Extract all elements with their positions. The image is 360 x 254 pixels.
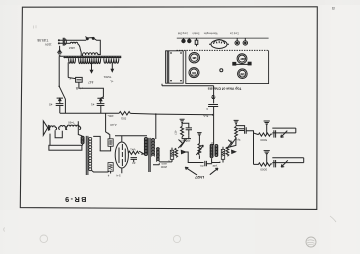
coupling capacitor C9 under V1 <box>131 158 138 162</box>
B+ wire from fuse to filter <box>79 82 104 98</box>
panel binding post 1 <box>235 38 239 45</box>
bypass resistor R8 <box>235 126 238 139</box>
wire network to jack feeds <box>246 131 258 165</box>
detector grid ground G4 <box>180 119 185 126</box>
svg-text:485: 485 <box>192 56 197 59</box>
T1 secondary winding bumps group 3 <box>104 58 119 63</box>
paper smudges <box>4 25 336 231</box>
power transformer T1 core <box>63 56 121 57</box>
svg-text:400+: 400+ <box>107 114 114 118</box>
svg-text:201: 201 <box>191 71 196 74</box>
chassis mounting hole <box>220 69 223 72</box>
ground symbol at line input <box>57 46 62 56</box>
grid squiggle resistor stage B <box>226 147 229 156</box>
wire bus junction down to T4 <box>212 115 214 145</box>
wire plug to line switch <box>64 39 86 41</box>
panel knob 2 <box>188 38 191 43</box>
filter capacitor C1 with ground arrow <box>97 98 105 113</box>
speaker connection wires <box>55 130 62 137</box>
jack J2 shunt resistor R10 <box>254 163 273 166</box>
T1 winding tap leads <box>65 56 121 58</box>
bus continues to junctions <box>130 113 212 114</box>
T1 filament tap arrow group2 <box>90 62 92 72</box>
punch hole left <box>40 235 48 243</box>
svg-text:BR-9: BR-9 <box>64 195 87 204</box>
punch hole middle <box>173 235 180 242</box>
interstage transformer T3 core <box>149 138 150 172</box>
grid leak resistor R6 <box>181 126 184 136</box>
svg-text:+L: +L <box>110 79 114 83</box>
fuse element AMZ in line <box>64 42 81 56</box>
phone jack J2 ground G8 <box>264 151 270 165</box>
svg-text:3у+: 3у+ <box>236 138 241 142</box>
battery box B1 <box>49 145 82 150</box>
T1 secondary winding bumps group 2 <box>79 58 101 63</box>
jack J2 blocking capacitor C8 <box>274 160 276 167</box>
coupling capacitor C5 <box>205 161 212 166</box>
svg-text:юоо​: юоо​ <box>161 162 167 166</box>
battery compartment box <box>166 51 184 83</box>
T3 primary bumps <box>144 137 147 155</box>
resistor R1 in bus <box>119 112 130 115</box>
cathode resistor box R4 <box>170 148 173 162</box>
svg-text:5000: 5000 <box>260 138 267 142</box>
label TM01 4L under T1 right winding <box>103 75 114 83</box>
bypass capacitor C3 at ground <box>208 105 218 115</box>
B+ bus wire with series resistor <box>60 112 119 114</box>
svg-text:110V: 110V <box>45 42 52 46</box>
svg-text:уdd: уdd <box>212 164 217 168</box>
tube socket 3 with mounting lugs <box>233 54 251 65</box>
jack J1 tip spring arrow <box>281 131 288 138</box>
wire switch to ballast coil <box>94 39 100 55</box>
volume potentiometer R5 <box>196 144 203 159</box>
bias resistor box R3 <box>108 163 113 174</box>
svg-text:Cord Lts: Cord Lts <box>229 32 239 35</box>
svg-text:#1: #1 <box>91 102 95 106</box>
svg-text:LMT: LMT <box>240 57 246 60</box>
svg-text:A,AC: A,AC <box>110 123 117 127</box>
cathode resistor box R7 <box>221 147 224 163</box>
T3 secondary bottom lead to stage A <box>153 162 172 165</box>
tube socket 4 <box>238 69 248 79</box>
T2 secondary bottom lead <box>92 170 109 172</box>
line switch SW1 <box>86 36 95 39</box>
jack J1 blocking capacitor C7 <box>274 130 276 137</box>
svg-text:Bⁿ⁂: Bⁿ⁂ <box>203 114 209 118</box>
tube socket 2 <box>189 68 199 78</box>
svg-text:30Ω: 30Ω <box>121 116 126 120</box>
phone jack J1 ground G7 <box>264 121 270 135</box>
bypass capacitor C6 <box>239 129 245 131</box>
T1 left lead wire <box>59 56 63 86</box>
punch hole right with scribble <box>306 237 316 247</box>
svg-text:´4: ´4 <box>230 139 233 143</box>
detector tube V2 plate and grid strokes <box>178 138 187 148</box>
filament arrow node stage A <box>181 150 185 153</box>
T2 secondary top lead to grid resistor <box>93 136 100 151</box>
svg-text:T-89-98: T-89-98 <box>37 38 48 42</box>
svg-text:TM01·: TM01· <box>103 75 112 79</box>
fuse box F1 on B+ lead <box>68 77 82 82</box>
svg-text:Top View of Chassis: Top View of Chassis <box>208 86 242 90</box>
junction node at bypass cap <box>212 114 214 116</box>
grid resistor box R2 <box>100 113 114 151</box>
output transformer T2 core <box>86 136 88 175</box>
volume control ground G5 <box>197 133 202 144</box>
grid leak resistor R11 beside V1 <box>128 151 144 154</box>
svg-text:LN27: LN27 <box>195 175 204 179</box>
jack J2 frame rails <box>272 158 303 163</box>
panel lever switch <box>195 38 198 46</box>
RF choke T4 winding pair <box>210 144 218 158</box>
bypass network ground G6 <box>234 120 245 127</box>
bypass network bottom lead <box>227 139 236 148</box>
svg-text:447: 447 <box>88 80 94 84</box>
svg-text:Wavelengths: Wavelengths <box>203 32 218 35</box>
T1 HV lead with label X <box>67 62 69 77</box>
chassis bonding wire under panel <box>162 84 214 86</box>
wire stage A to coupling cap <box>186 152 204 163</box>
T2 secondary bumps <box>89 137 92 170</box>
svg-text:#2: #2 <box>132 161 136 165</box>
speaker field coil bumps <box>49 126 57 130</box>
filter capacitor C2 with ground arrow <box>56 98 64 113</box>
label B plus at fuse <box>75 86 84 90</box>
wire battery to T2 <box>81 144 84 146</box>
V1 internal plate and grid <box>119 136 125 174</box>
jack J2 tip spring arrow <box>281 160 288 167</box>
grid capacitor C4 <box>182 123 192 135</box>
svg-text:a: a <box>332 5 335 11</box>
grid squiggle resistor beside R4 <box>175 148 178 157</box>
junction node on left lead <box>58 86 60 88</box>
jack J1 shunt resistor R9 <box>258 133 272 136</box>
top wire linking R2 tube V1 and T3 <box>115 135 147 137</box>
wire T1 left lead jog to bus <box>59 86 65 113</box>
power tube V1 envelope <box>115 142 128 168</box>
panel knob 1 <box>182 38 185 43</box>
T1 primary winding bumps group 1 <box>69 58 76 63</box>
svg-text:Switch: Switch <box>192 32 200 35</box>
T2 primary bottom lead <box>82 144 84 145</box>
chassis panel dotted front edge <box>177 49 269 51</box>
panel binding post 2 <box>243 38 247 45</box>
filament arrow node stage B <box>232 150 236 153</box>
ballast resistor coil on primary <box>83 53 101 56</box>
dial escutcheon <box>209 40 229 49</box>
svg-text:SAT: SAT <box>240 72 245 75</box>
T4 bottom lead <box>212 158 220 162</box>
T1 filament tap arrow group3 <box>111 62 113 71</box>
tube socket 1 <box>189 53 199 63</box>
pointer label LN27 with two arrows <box>185 167 218 179</box>
svg-text:#2: #2 <box>49 102 53 106</box>
grid network junction wires <box>182 135 191 141</box>
wire bus drop to T3 secondary <box>155 114 157 139</box>
svg-text:24·: 24· <box>199 164 203 168</box>
svg-text:V#1: V#1 <box>130 148 136 152</box>
T3 aux winding bumps <box>157 148 160 162</box>
svg-text:AMZ: AMZ <box>69 46 75 50</box>
T3 secondary bumps <box>152 139 155 157</box>
speaker voice coil bumps <box>59 125 67 129</box>
svg-text:477: 477 <box>174 130 178 135</box>
series capacitor C10 <box>245 127 247 134</box>
junction node at detector drop <box>155 113 157 115</box>
svg-text:5000: 5000 <box>260 168 267 172</box>
T2 primary bumps <box>81 136 84 143</box>
AC line plug P1 <box>58 38 66 46</box>
jack J1 frame rails <box>272 128 296 133</box>
svg-text:+²4: +²4 <box>180 139 185 143</box>
svg-text:5-4: 5-4 <box>116 173 120 177</box>
audio tube V3 plate strokes <box>227 138 236 148</box>
svg-text:T=90: T=90 <box>68 121 75 125</box>
svg-text:Long Dial: Long Dial <box>177 32 188 35</box>
output choke coil bumps <box>66 125 81 129</box>
chassis top view outline <box>186 50 269 83</box>
chassis ground G3 below panel <box>211 86 215 104</box>
horn loudspeaker LS1 <box>43 121 49 135</box>
